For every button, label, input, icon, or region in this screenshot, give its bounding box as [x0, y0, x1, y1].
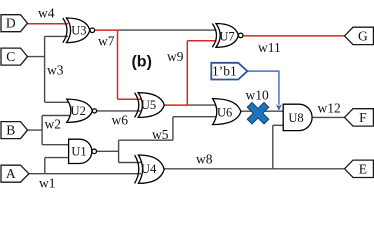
svg-text:U8: U8	[288, 111, 303, 125]
svg-text:w5: w5	[152, 127, 169, 142]
svg-text:F: F	[359, 110, 367, 125]
svg-text:w6: w6	[112, 113, 129, 128]
svg-text:w7: w7	[98, 34, 115, 49]
svg-text:B: B	[6, 123, 15, 138]
svg-text:w11: w11	[258, 40, 281, 55]
svg-text:w3: w3	[47, 63, 64, 78]
svg-text:C: C	[6, 49, 15, 64]
svg-text:w9: w9	[167, 49, 184, 64]
svg-text:w2: w2	[45, 117, 62, 132]
svg-text:U5: U5	[141, 98, 156, 112]
svg-text:(b): (b)	[131, 53, 151, 70]
svg-text:A: A	[6, 166, 16, 181]
svg-text:E: E	[359, 161, 367, 176]
svg-text:w10: w10	[246, 88, 269, 103]
svg-text:U1: U1	[71, 145, 86, 159]
svg-text:U7: U7	[219, 30, 234, 44]
svg-text:U3: U3	[71, 24, 86, 38]
svg-text:U4: U4	[141, 162, 157, 176]
svg-text:1’b1: 1’b1	[212, 64, 237, 79]
svg-text:w1: w1	[39, 176, 56, 191]
svg-text:D: D	[6, 16, 16, 31]
svg-text:U2: U2	[71, 104, 86, 118]
svg-text:w12: w12	[318, 101, 341, 116]
svg-text:w8: w8	[196, 152, 213, 167]
svg-text:G: G	[358, 28, 368, 43]
svg-text:U6: U6	[217, 105, 232, 119]
svg-text:w4: w4	[38, 6, 55, 21]
